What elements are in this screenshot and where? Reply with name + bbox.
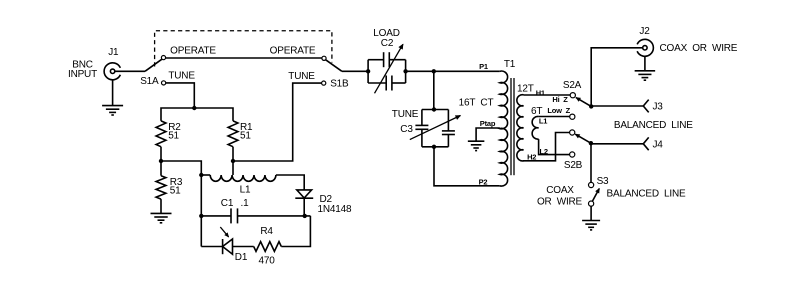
svg-text:INPUT: INPUT bbox=[68, 69, 97, 80]
ground at J1 bbox=[102, 105, 123, 107]
arrow of variable capacitor C2 bbox=[375, 44, 404, 93]
svg-text:TUNE: TUNE bbox=[168, 71, 195, 82]
svg-text:J3: J3 bbox=[653, 102, 664, 113]
wire bus down to C3 bbox=[433, 71, 435, 109]
svg-text:TUNE: TUNE bbox=[392, 109, 419, 120]
wire right side of detector loop bbox=[281, 216, 310, 247]
svg-text:T1: T1 bbox=[504, 59, 516, 70]
junction C2 right bbox=[403, 69, 407, 73]
svg-text:S1A: S1A bbox=[140, 76, 159, 87]
switch S1B TUNE contact bbox=[322, 81, 326, 85]
svg-text:51: 51 bbox=[168, 131, 179, 142]
junction C3 tap on bus bbox=[432, 69, 436, 73]
wire D1 to R4 bbox=[233, 246, 254, 248]
wire J1 center pin to S1A pole bbox=[115, 70, 145, 72]
wire S2A pole to J2 bbox=[591, 48, 643, 107]
dashed mechanical linkage S1A-S1B bbox=[155, 31, 332, 67]
svg-text:J1: J1 bbox=[108, 47, 119, 58]
wire bottom loop left to D1 bbox=[201, 246, 222, 248]
ground at R3 bbox=[151, 212, 172, 214]
svg-text:COAX OR WIRE: COAX OR WIRE bbox=[660, 43, 738, 54]
svg-text:S3: S3 bbox=[597, 176, 609, 187]
ground at Ptap bbox=[468, 140, 485, 142]
junction D2/C1 bbox=[303, 214, 307, 218]
diode D2 1N4148 bbox=[297, 190, 312, 198]
svg-text:1N4148: 1N4148 bbox=[318, 204, 352, 215]
svg-text:Ptap: Ptap bbox=[480, 119, 496, 128]
connector J2 BNC jack bbox=[637, 39, 653, 56]
switch S3 bottom contact bbox=[589, 201, 594, 206]
wire J2 shell to ground bbox=[644, 56, 646, 70]
wire C3 bottom to P2 bbox=[434, 147, 500, 186]
wire S3 to ground bbox=[590, 206, 592, 221]
svg-text:470: 470 bbox=[259, 255, 276, 266]
wire L1 (6T top) to Low Z contact bbox=[539, 116, 571, 118]
svg-text:C3: C3 bbox=[400, 124, 413, 135]
svg-text:C1: C1 bbox=[221, 198, 234, 209]
wire R2/R3 junction to L1 branch bbox=[161, 161, 201, 247]
wire bridge top rail bbox=[161, 108, 233, 121]
svg-text:16T CT: 16T CT bbox=[459, 98, 494, 109]
switch S1A arm (pole to OPERATE contact) bbox=[145, 59, 162, 71]
resistor R1 bbox=[228, 121, 238, 147]
svg-text:D1: D1 bbox=[235, 252, 248, 263]
connector J1 BNC jack bbox=[104, 63, 120, 80]
wire OPERATE to OPERATE bbox=[166, 57, 323, 59]
wire R3 to ground bbox=[160, 199, 162, 213]
wire L1 left lead bbox=[201, 174, 210, 176]
switch S2A arm bbox=[576, 98, 591, 107]
svg-text:51: 51 bbox=[170, 185, 181, 196]
svg-text:S2A: S2A bbox=[563, 80, 582, 91]
svg-text:OPERATE: OPERATE bbox=[270, 46, 316, 57]
svg-text:J2: J2 bbox=[639, 26, 650, 37]
switch S3 arm bbox=[591, 189, 599, 204]
wire L1 right lead to D2 bbox=[276, 175, 304, 190]
wire H1 to Hi Z contact bbox=[524, 94, 571, 96]
transformer T1 secondary winding 6T bbox=[532, 116, 538, 139]
diode D1 (LED indicator) bbox=[222, 239, 224, 254]
junction bridge top rail bbox=[192, 106, 196, 110]
switch S1B arm (OPERATE contact to pole) bbox=[326, 60, 342, 72]
svg-text:OPERATE: OPERATE bbox=[170, 46, 216, 57]
inductor L1 bbox=[210, 175, 276, 181]
wire J1 shell to ground bbox=[112, 80, 114, 106]
svg-text:H2: H2 bbox=[527, 153, 536, 162]
wire R2 bottom to junction bbox=[160, 147, 162, 176]
switch S1A OPERATE contact bbox=[161, 56, 165, 60]
svg-text:BALANCED LINE: BALANCED LINE bbox=[614, 120, 693, 131]
junction S2A pole bbox=[589, 104, 593, 108]
junction S2B pole bbox=[589, 141, 593, 145]
junction C3 top bbox=[432, 107, 436, 111]
svg-text:TUNE: TUNE bbox=[288, 71, 315, 82]
wire Ptap to ground bbox=[476, 128, 500, 141]
resistor R4 bbox=[254, 242, 282, 252]
svg-text:L1: L1 bbox=[539, 117, 547, 126]
svg-text:Low Z: Low Z bbox=[547, 106, 570, 115]
svg-text:S2B: S2B bbox=[564, 160, 583, 171]
switch S2A Hi Z contact bbox=[570, 93, 575, 98]
wire S1B pole to C2 bbox=[342, 70, 368, 72]
capacitor C2 LOAD (split stator) bbox=[367, 60, 369, 83]
resistor R3 bbox=[156, 176, 166, 199]
ground at S3 bbox=[582, 220, 600, 222]
switch S2A Low Z contact bbox=[570, 114, 575, 119]
switch S1B OPERATE contact bbox=[322, 56, 326, 60]
svg-text:6T: 6T bbox=[531, 106, 542, 117]
svg-text:L2: L2 bbox=[540, 147, 548, 156]
svg-text:J4: J4 bbox=[653, 139, 664, 150]
svg-text:P1: P1 bbox=[479, 62, 488, 71]
junction L1 left end bbox=[199, 173, 203, 177]
svg-text:C2: C2 bbox=[381, 38, 394, 49]
svg-text:COAX: COAX bbox=[546, 185, 574, 196]
connector J4 bbox=[643, 137, 648, 143]
transformer T1 secondary winding 12T bbox=[517, 95, 524, 161]
connector J3 bbox=[643, 100, 648, 106]
arrow of variable capacitor C3 bbox=[410, 116, 461, 140]
wire S1A TUNE contact to bridge top rail bbox=[166, 83, 195, 108]
wire H2 to S2B contact bbox=[523, 133, 570, 161]
wire S2B pole to S3 bbox=[590, 143, 592, 183]
svg-text:H1: H1 bbox=[536, 89, 545, 98]
switch S2B arm bbox=[575, 134, 591, 143]
svg-text:S1B: S1B bbox=[330, 79, 349, 90]
junction C2 left bbox=[366, 69, 370, 73]
wire S2B pole to J4 bbox=[591, 143, 643, 145]
junction C1 left bbox=[199, 214, 203, 218]
svg-text:51: 51 bbox=[240, 131, 251, 142]
wire R1 bottom to output node bbox=[232, 147, 234, 175]
resistor R2 bbox=[156, 121, 166, 147]
transformer T1 core bbox=[510, 78, 512, 175]
capacitor C1 .1 bbox=[230, 208, 232, 223]
wire C2 to T1 primary P1 bbox=[406, 70, 500, 72]
switch S2B contact (to L2) bbox=[570, 152, 575, 157]
transformer T1 primary winding 16T bbox=[500, 71, 508, 186]
wire C1 right lead bbox=[238, 215, 311, 217]
wire S1B TUNE contact to R1 bottom bbox=[233, 83, 322, 161]
svg-text:L1: L1 bbox=[240, 185, 251, 196]
svg-text:Hi Z: Hi Z bbox=[552, 95, 568, 104]
wire L2 (6T bottom) to S2B contact bbox=[539, 139, 571, 155]
capacitor C3 TUNE (split stator) bbox=[422, 109, 449, 111]
svg-text:.1: .1 bbox=[241, 198, 250, 209]
junction R2/R3 bbox=[159, 159, 163, 163]
svg-text:P2: P2 bbox=[479, 177, 488, 186]
ground at J2 bbox=[635, 70, 656, 72]
svg-text:OR WIRE: OR WIRE bbox=[537, 197, 583, 208]
junction C3 bottom bbox=[432, 145, 436, 149]
wire D2 cathode to C1 line bbox=[303, 198, 305, 216]
switch S1A TUNE contact bbox=[162, 81, 166, 85]
svg-text:R4: R4 bbox=[260, 226, 273, 237]
svg-text:12T: 12T bbox=[517, 84, 534, 95]
wire C1 left lead bbox=[201, 215, 231, 217]
junction R1 bottom bbox=[231, 159, 235, 163]
switch S2B contact (to H2) bbox=[570, 130, 575, 135]
switch S3 top contact bbox=[589, 182, 594, 187]
LED arrow on D1 bbox=[220, 227, 228, 237]
svg-text:BALANCED LINE: BALANCED LINE bbox=[607, 188, 686, 199]
wire S2A pole to J3 bbox=[591, 105, 643, 107]
